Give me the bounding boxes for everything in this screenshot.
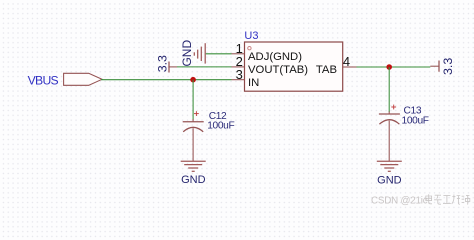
svg-text:100uF: 100uF bbox=[402, 115, 429, 126]
wire 3.3 to pin VOUT bbox=[177, 66, 232, 68]
junction node at C12 tap bbox=[190, 77, 196, 83]
pin 1 ADJ(GND) bbox=[232, 41, 303, 63]
wire junction down to C13 bbox=[388, 67, 390, 112]
svg-text:4: 4 bbox=[343, 54, 350, 69]
wire net VBUS to pin IN bbox=[101, 79, 232, 81]
op-amp regulator U3 body bbox=[245, 42, 343, 91]
pin 3 IN bbox=[232, 67, 260, 89]
wire junction down to C12 bbox=[192, 80, 194, 120]
svg-text:3: 3 bbox=[236, 67, 243, 82]
capacitor C12 bbox=[183, 111, 204, 161]
label C12 value bbox=[207, 111, 234, 132]
svg-text:GND: GND bbox=[180, 40, 194, 67]
capacitor C13 bbox=[379, 105, 400, 162]
ground under C13 bbox=[377, 161, 402, 186]
ground under C12 bbox=[181, 161, 206, 186]
power port 3.3 at pin VOUT bbox=[155, 55, 177, 73]
svg-text:U3: U3 bbox=[244, 30, 258, 42]
power port GND at pin ADJ bbox=[180, 40, 205, 67]
watermark CJK glyphs bbox=[426, 194, 470, 204]
label C13 value bbox=[402, 106, 429, 127]
junction node at C13 tap bbox=[386, 64, 392, 70]
svg-text:3.3: 3.3 bbox=[155, 55, 169, 72]
svg-text:CSDN @21ic: CSDN @21ic bbox=[371, 195, 428, 206]
svg-text:VOUT(TAB): VOUT(TAB) bbox=[248, 64, 308, 76]
svg-text:VBUS: VBUS bbox=[28, 74, 59, 88]
svg-text:ADJ(GND): ADJ(GND) bbox=[248, 51, 302, 63]
wire GND to pin ADJ bbox=[206, 53, 232, 55]
pin 4 TAB bbox=[316, 54, 357, 76]
port VBUS bbox=[28, 73, 102, 87]
pin-1 marker dot bbox=[248, 47, 251, 50]
svg-text:IN: IN bbox=[248, 77, 259, 89]
svg-text:TAB: TAB bbox=[316, 64, 337, 76]
watermark CSDN bbox=[371, 195, 428, 206]
power port 3.3 output bbox=[430, 58, 455, 75]
pin 2 VOUT(TAB) bbox=[232, 54, 309, 76]
wire TAB output bbox=[357, 66, 431, 68]
svg-text:3.3: 3.3 bbox=[441, 58, 455, 75]
svg-text:GND: GND bbox=[181, 174, 206, 186]
svg-text:GND: GND bbox=[377, 174, 402, 186]
svg-text:100uF: 100uF bbox=[207, 121, 234, 132]
